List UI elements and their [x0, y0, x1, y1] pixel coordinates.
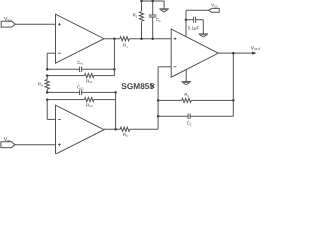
wire A1 inverting input horizontal: [47, 52, 55, 54]
output arrow VOUT: [252, 52, 256, 55]
op-amp A2 (SGM855x) - input marker: [58, 118, 61, 120]
junction A2 output feedback node: [114, 128, 117, 131]
wire CF1 right: [82, 68, 115, 70]
op-amp A1 (SGM855x): [56, 14, 105, 63]
wire C2 left: [158, 115, 188, 117]
junction CF2 / A2 output vertical: [114, 91, 117, 94]
wire output feedback vertical: [232, 53, 234, 116]
wire A2 inverting input horizontal: [47, 118, 55, 120]
resistor RG (gain set): [45, 80, 49, 90]
capacitor C1 (filter to ground): [149, 15, 157, 17]
wire to A3 inverting input: [158, 66, 171, 68]
wire up to A3 inverting input: [157, 67, 159, 130]
junction node filter R2: [140, 38, 143, 41]
svg-text:CF2: CF2: [77, 85, 84, 91]
junction RF1 / RG top: [46, 74, 49, 77]
svg-text:VOUT: VOUT: [251, 45, 261, 51]
junction CF1 / output vertical: [113, 68, 116, 71]
svg-text:RG: RG: [38, 82, 43, 88]
ground GND3: [182, 82, 191, 85]
junction A2 inverting node / RF2: [46, 98, 49, 101]
wire bypass cap right: [196, 19, 204, 21]
wire bypass cap left: [186, 19, 194, 21]
resistor R1 (series, A1 output): [120, 37, 130, 41]
capacitor bypass 0.1uF: [194, 17, 196, 23]
svg-text:R4: R4: [184, 92, 189, 98]
wire ground rail right segment: [153, 0, 164, 2]
svg-text:VIN+: VIN+: [4, 17, 13, 23]
wire R1 to A3 non-inverting input: [129, 38, 171, 40]
wire RF1 left: [47, 75, 84, 77]
wire A2 feedback vertical: [115, 92, 117, 129]
op-amp A2 (SGM855x): [56, 105, 105, 154]
svg-text:C2: C2: [187, 121, 192, 127]
svg-text:VCC: VCC: [211, 2, 218, 8]
op-amp A1 (SGM855x) + input marker: [58, 23, 61, 26]
op-amp A3 (SGM855x) - input marker: [174, 66, 177, 68]
junction rail / R2 top: [140, 0, 143, 2]
wire A3 ground pin: [185, 69, 187, 82]
ground GND1: [159, 9, 168, 12]
input port tag VIN+: [1, 21, 15, 27]
junction A1 output feedback node: [113, 38, 116, 41]
capacitor CF1: [80, 67, 82, 72]
wire ground rail left segment: [142, 0, 153, 2]
wire R4 left: [158, 99, 182, 101]
junction node filter C1: [151, 38, 154, 41]
resistor RF1: [84, 74, 94, 78]
power port tag VCC: [209, 8, 220, 12]
wire CF2 right: [82, 91, 116, 93]
wire VIN+ to A1 non-inverting input: [15, 23, 55, 25]
svg-text:R3: R3: [123, 132, 128, 138]
op-amp A3 (SGM855x) + input marker: [174, 37, 177, 40]
capacitor C2 (A3 feedback): [188, 114, 190, 119]
wire RF1 right: [94, 75, 114, 77]
junction rail / C1 top: [151, 0, 154, 2]
wire VIN- to A2 non-inverting input: [15, 144, 56, 146]
svg-text:R2: R2: [133, 13, 138, 19]
svg-text:RF1: RF1: [86, 78, 93, 84]
wire A2 output to R3: [104, 128, 120, 130]
wire A2 inverting node vertical: [46, 100, 48, 120]
ground GND2: [199, 34, 208, 37]
svg-text:R1: R1: [123, 43, 128, 49]
svg-text:CF1: CF1: [77, 60, 84, 66]
svg-text:RF2: RF2: [86, 102, 93, 108]
wire C2 right: [190, 115, 233, 117]
resistor R3 (series, A2 output): [120, 127, 130, 131]
junction A3 inverting node / R4: [157, 99, 160, 102]
label SGM855x suffix x mark: [151, 84, 155, 88]
junction A1 inverting node / CF1: [46, 68, 49, 71]
wire A1 feedback vertical: [113, 39, 115, 76]
wire R4 right: [191, 99, 233, 101]
wire A1 inverting node vertical: [46, 53, 48, 69]
wire CF2 left: [47, 91, 79, 93]
capacitor CF2: [80, 90, 82, 95]
svg-text:C1: C1: [156, 17, 161, 23]
op-amp A2 (SGM855x) + input marker: [58, 143, 61, 146]
wire CF1 left: [47, 68, 79, 70]
junction A3 output / feedback: [232, 52, 235, 55]
resistor RF2: [84, 98, 94, 102]
junction supply / bypass capacitor: [185, 18, 188, 21]
svg-text:0.1µF: 0.1µF: [188, 25, 200, 30]
wire RG top lead: [46, 76, 48, 80]
wire R2 top lead: [141, 1, 143, 11]
wire RG bottom lead: [46, 89, 48, 92]
svg-text:SGM855: SGM855: [121, 81, 154, 91]
input port tag VIN-: [1, 142, 15, 148]
svg-text:VIN-: VIN-: [4, 137, 12, 143]
wire A3 output to VOUT: [218, 52, 252, 54]
wire bypass cap to ground GND2: [202, 20, 204, 34]
wire to ground GND1: [163, 1, 165, 9]
wire A3 supply pin vertical: [185, 10, 187, 36]
wire C1 top lead: [152, 1, 154, 15]
wire A1 output to R1: [104, 38, 120, 40]
op-amp A3 (SGM855x): [171, 29, 218, 77]
resistor R2 (filter to ground): [139, 12, 143, 22]
resistor R4 (A3 feedback): [182, 98, 192, 102]
junction A3 inverting node / C2: [157, 115, 160, 118]
wire RF2 left: [47, 99, 84, 101]
junction RG bottom / CF2: [46, 91, 49, 94]
wire RF2 right: [94, 99, 116, 101]
junction R4 / output vertical: [232, 99, 235, 102]
wire R3 to corner: [130, 128, 158, 130]
wire R2 bottom lead: [141, 22, 143, 39]
wire C1 bottom lead: [152, 17, 154, 39]
op-amp A1 (SGM855x) - input marker: [58, 52, 61, 54]
wire VCC tag to supply vertical: [186, 9, 209, 11]
